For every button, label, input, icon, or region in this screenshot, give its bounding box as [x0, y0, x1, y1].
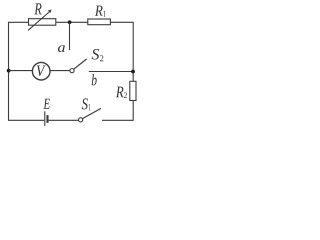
battery E long plate: [44, 111, 46, 126]
wire: voltmeter to switch S2: [50, 70, 70, 72]
wire: contact b to right wire: [89, 71, 133, 73]
label R: [34, 3, 41, 14]
wire: branch down to terminal a: [69, 22, 71, 50]
wire: left side vertical: [8, 22, 10, 121]
voltmeter V glyph: [37, 66, 46, 77]
wire: bottom segment battery to switch S1: [49, 119, 79, 121]
battery E short plate: [46, 115, 48, 123]
resistor R2 body: [130, 81, 136, 100]
voltmeter U1 circle: [32, 62, 50, 80]
node junction right wire and b wire: [131, 70, 135, 74]
node junction on left wire: [7, 69, 11, 73]
node junction on top wire: [68, 20, 72, 24]
node b label: [92, 74, 97, 85]
switch S2 lever: [74, 59, 87, 69]
wire: top side from left corner to right corner: [9, 21, 134, 23]
label E: [43, 99, 50, 109]
resistor R (rheostat) body: [29, 19, 56, 26]
wire: right side vertical: [132, 22, 134, 121]
label R1: [95, 6, 103, 16]
switch S2 pivot: [70, 69, 74, 73]
resistor R1 body: [88, 19, 111, 25]
label R2: [116, 87, 124, 98]
label S1: [82, 98, 88, 109]
node a label: [58, 45, 65, 52]
switch S1 pivot: [79, 118, 83, 122]
wire: middle from left wire to voltmeter: [9, 70, 33, 72]
rheostat wiper arrow: [28, 12, 49, 30]
wire: bottom left segment to battery: [9, 119, 45, 121]
label S2: [92, 49, 100, 60]
switch S1 lever: [83, 108, 102, 118]
wire: bottom right segment from S1 contact to corner: [102, 119, 133, 121]
